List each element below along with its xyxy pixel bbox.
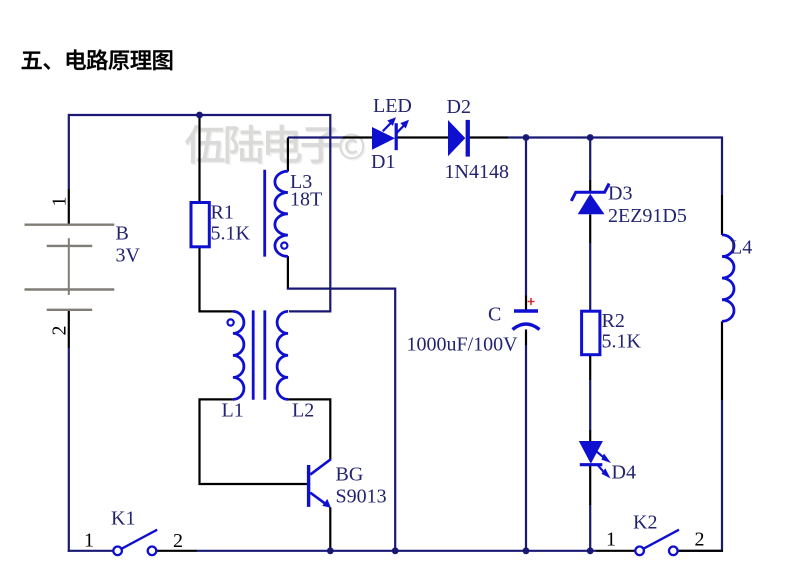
svg-text:L1: L1: [222, 400, 244, 422]
battery B plate long top: [25, 223, 115, 225]
capacitor C plus sign: [528, 298, 535, 305]
wire bottom rail right of K2: [678, 550, 723, 552]
svg-text:R2: R2: [602, 310, 625, 332]
LED D1 arrow 2: [396, 126, 404, 134]
wire LED D1 cathode to D2 anode: [398, 136, 450, 138]
node junction dot mid rail / C: [523, 134, 530, 141]
svg-text:D1: D1: [371, 151, 395, 173]
svg-text:2: 2: [695, 529, 705, 551]
svg-text:C: C: [488, 304, 501, 326]
svg-text:2: 2: [173, 530, 183, 552]
battery B center connector: [68, 238, 70, 295]
node junction dot bottom rail / L3 return: [392, 547, 399, 554]
battery B plate long lower: [25, 288, 115, 290]
battery B plate short upper: [47, 245, 92, 247]
LED D4 triangle: [579, 441, 603, 464]
switch K1 contact 1: [113, 547, 122, 556]
inductor L3 polarity dot: [281, 243, 287, 249]
wire mid rail from L3 to LED D1: [288, 136, 343, 138]
wire L1 bottom to transistor base: [200, 399, 307, 484]
svg-text:3V: 3V: [116, 245, 141, 267]
wire R1 top stub: [198, 115, 200, 204]
svg-text:18T: 18T: [290, 189, 322, 211]
capacitor C bottom plate (curved): [513, 324, 540, 330]
transformer winding L2: [277, 311, 288, 399]
svg-text:1: 1: [84, 530, 94, 552]
svg-text:LED: LED: [373, 95, 412, 117]
wire L4 bottom down to bottom rail corner: [721, 321, 723, 400]
LED D4 arrow 1: [597, 452, 604, 458]
transistor Q1 emitter stroke with arrow: [310, 493, 325, 504]
wire bottom rail left of K1: [68, 550, 114, 552]
svg-text:BG: BG: [336, 464, 364, 486]
LED D1 cathode bar: [395, 123, 398, 150]
wire C column bottom: [525, 330, 527, 346]
svg-text:1: 1: [49, 197, 71, 207]
svg-text:B: B: [116, 223, 129, 245]
switch K1 contact 2: [148, 547, 157, 556]
transistor Q1 collector stroke: [310, 459, 331, 474]
wire D2 cathode to C node: [470, 136, 509, 138]
switch K2 contact 1: [635, 547, 644, 556]
svg-text:D4: D4: [612, 462, 636, 484]
switch K1 lever: [122, 530, 158, 549]
diode D2 1N4148: [448, 120, 465, 156]
wire top rail from battery + down right side to transformer L2 top: [69, 115, 331, 311]
switch K2 lever: [644, 530, 680, 549]
transformer core: [252, 310, 255, 399]
capacitor C top plate: [514, 309, 538, 312]
wire D3 column top: [589, 138, 591, 181]
battery B plate short bottom: [47, 309, 92, 311]
LED D4 cathode bar: [580, 463, 603, 466]
switch K2 contact 2: [669, 547, 678, 556]
node junction dot bottom rail / C: [523, 547, 530, 554]
wire mid rail C node to right edge and down to L4: [526, 138, 722, 196]
transistor Q1 base bar: [307, 465, 310, 507]
wire C column top: [525, 138, 527, 296]
wire L2 bottom to transistor collector: [288, 399, 330, 459]
svg-text:2EZ91D5: 2EZ91D5: [608, 205, 687, 227]
svg-text:5.1K: 5.1K: [602, 331, 642, 353]
svg-text:2: 2: [49, 326, 71, 336]
node junction dot top rail / R1: [196, 112, 203, 119]
svg-text:S9013: S9013: [336, 486, 387, 508]
svg-text:L4: L4: [730, 237, 752, 259]
LED D1 triangle: [372, 127, 395, 150]
wire L3 bottom down and right to bottom rail: [287, 256, 289, 288]
node junction dot bottom rail / emitter: [327, 547, 334, 554]
svg-text:1N4148: 1N4148: [445, 161, 509, 183]
wire battery top stub: [68, 114, 70, 189]
wire D3 to R2: [589, 214, 591, 243]
zener D3 triangle: [578, 194, 605, 215]
wire battery bottom stub: [68, 311, 70, 348]
svg-text:K2: K2: [633, 512, 657, 534]
title 五、电路原理图: [22, 49, 172, 70]
svg-text:D2: D2: [447, 96, 471, 118]
wire bottom rail K1 to K2: [157, 550, 197, 552]
LED D4 arrow 2: [598, 465, 605, 473]
wire L3 top stub to mid rail: [287, 138, 289, 172]
transformer L1 polarity dot: [228, 319, 234, 325]
inductor L4 coil: [722, 235, 734, 321]
svg-text:L2: L2: [292, 400, 314, 422]
wire transistor emitter stub: [329, 507, 331, 551]
inductor L3 core bar: [263, 170, 266, 257]
svg-text:1: 1: [606, 529, 616, 551]
LED D1 arrow 1: [383, 123, 391, 131]
svg-text:R1: R1: [211, 202, 234, 224]
node junction dot bottom rail / D4: [587, 547, 594, 554]
zener D3 bar with tails: [571, 184, 609, 201]
wire D4 cathode to bottom rail: [589, 465, 591, 505]
wire R1 bottom to transformer L1 top: [200, 246, 233, 311]
watermark 伍陆电子©: [185, 125, 365, 165]
node junction dot mid rail / D3: [587, 134, 594, 141]
inductor L3 coil: [275, 171, 288, 256]
resistor R1: [191, 203, 209, 247]
svg-text:5.1K: 5.1K: [211, 223, 251, 245]
svg-text:D3: D3: [608, 183, 632, 205]
transformer winding L1: [233, 311, 244, 399]
resistor R2: [582, 311, 600, 355]
wire R2 to D4: [589, 355, 591, 380]
svg-text:1000uF/100V: 1000uF/100V: [407, 334, 519, 356]
svg-text:K1: K1: [111, 508, 135, 530]
diode D2 cathode bar: [466, 120, 470, 157]
